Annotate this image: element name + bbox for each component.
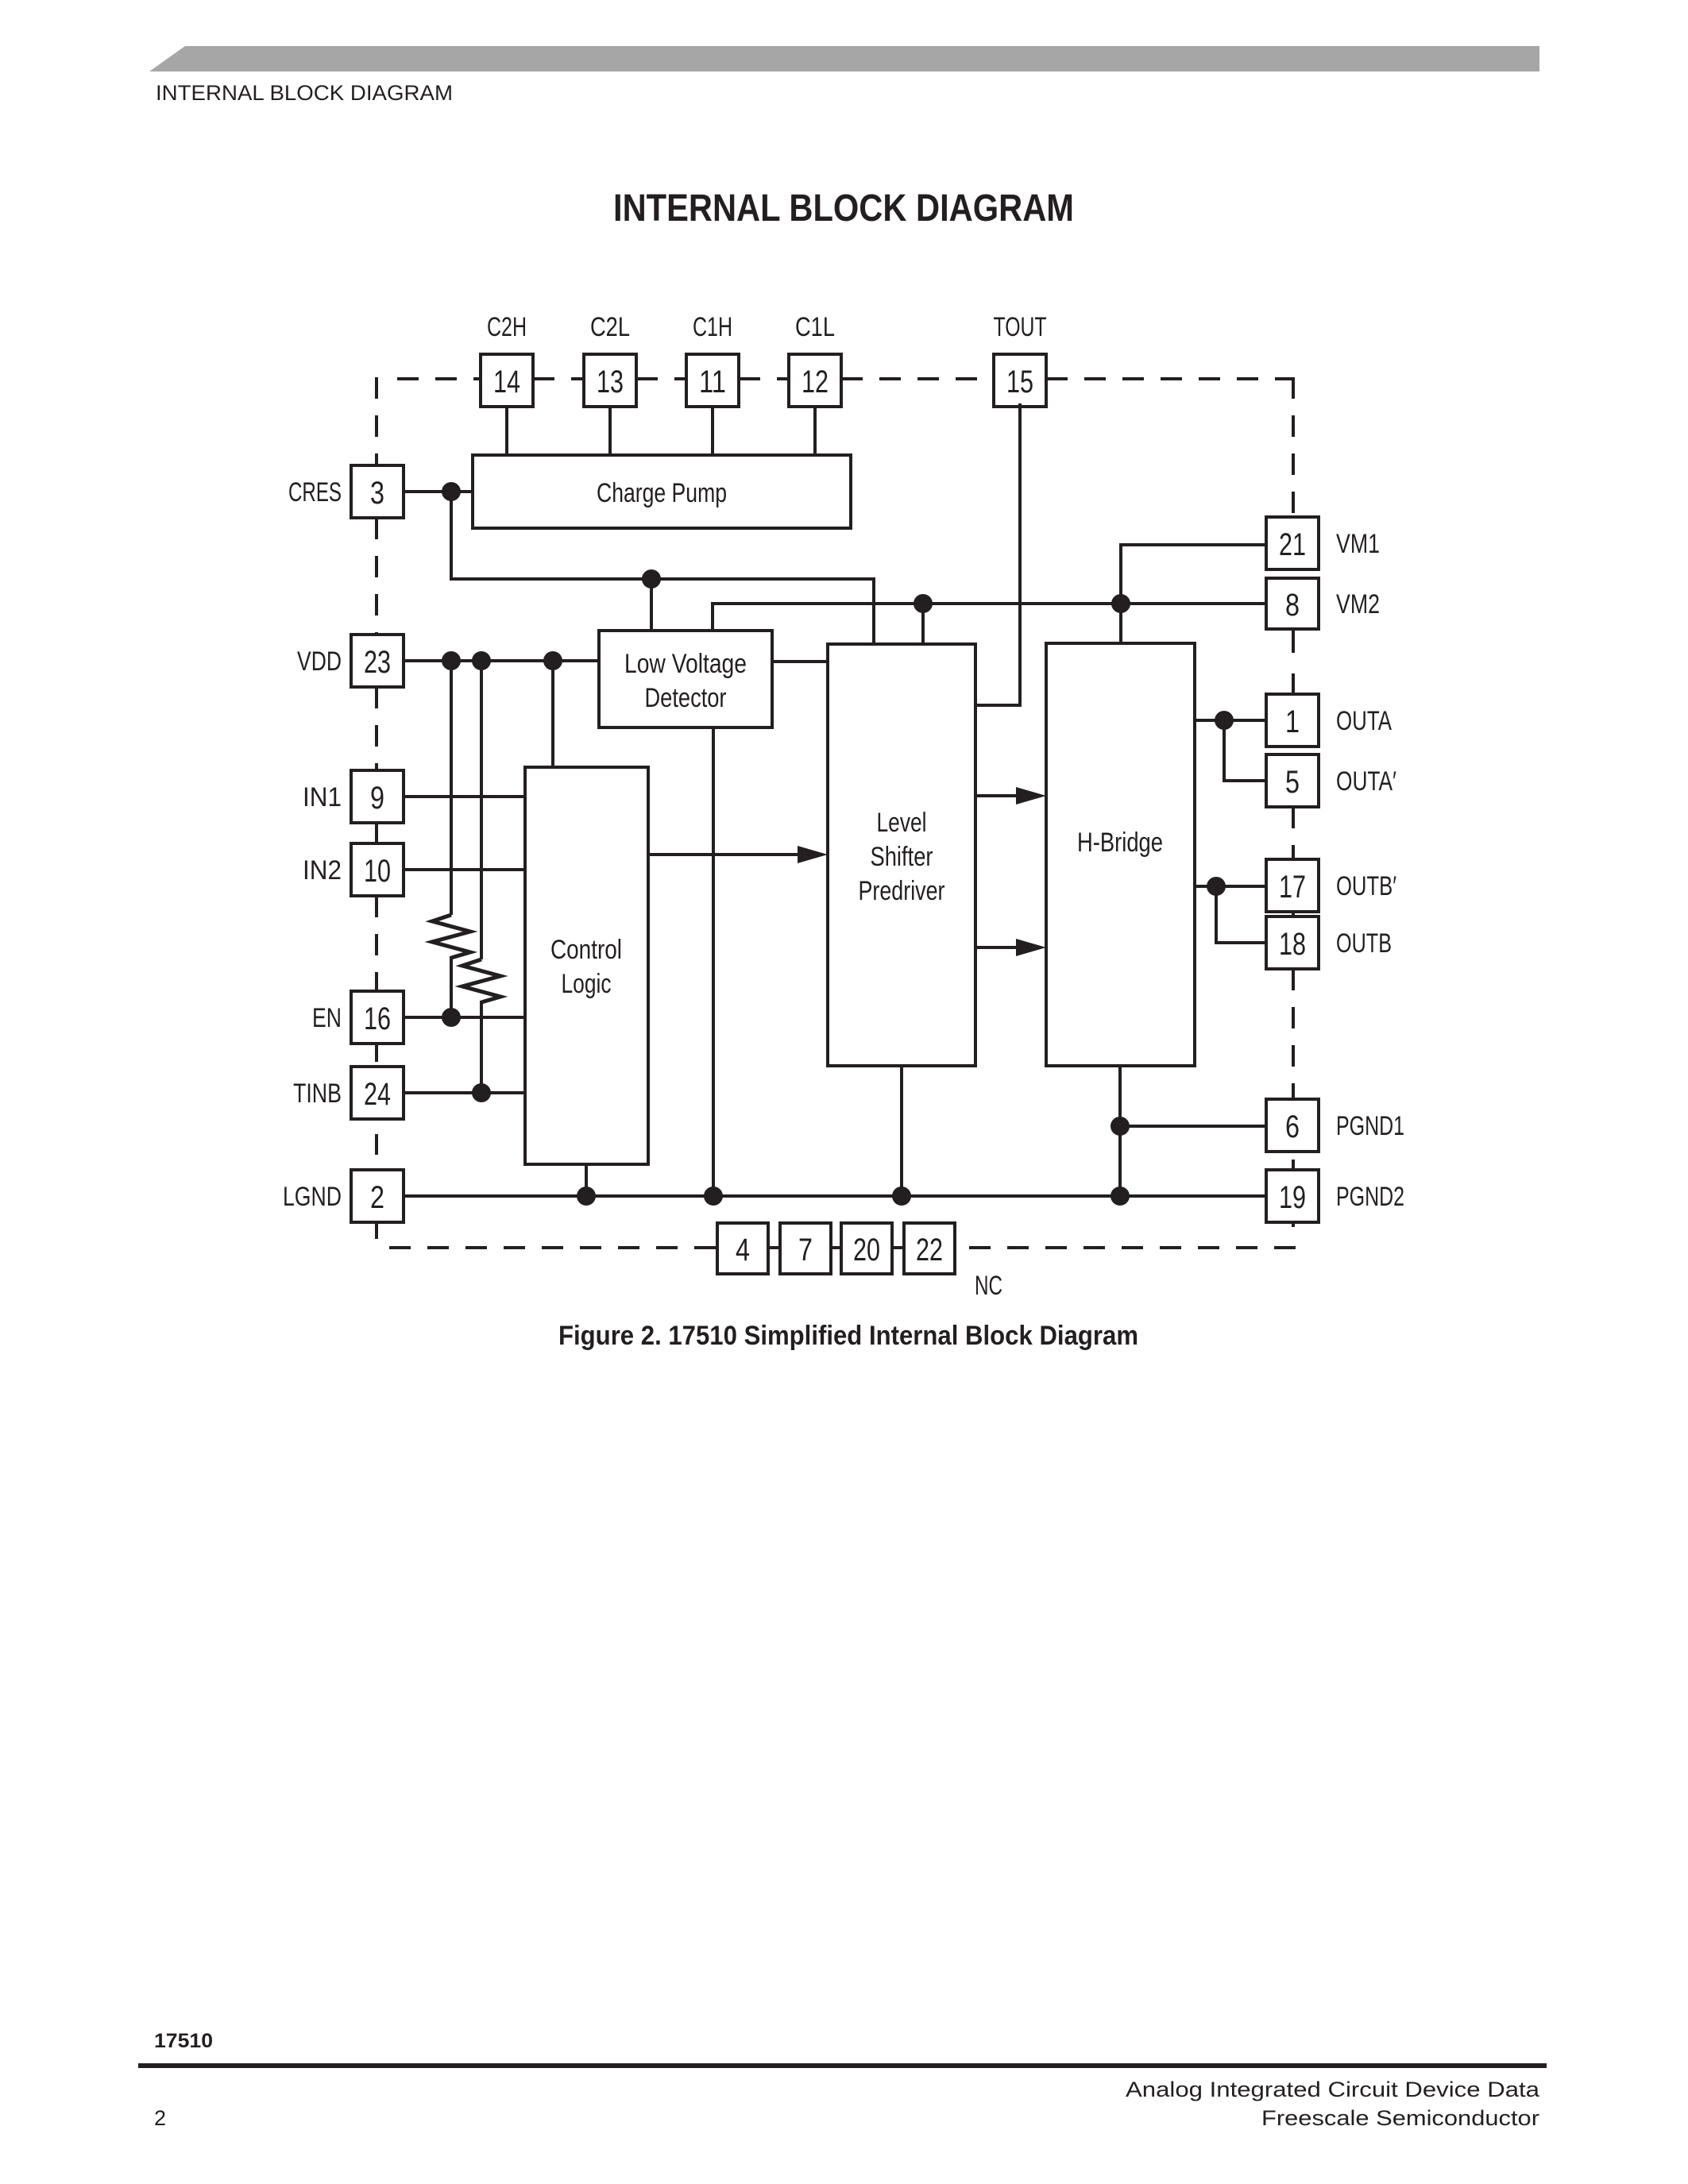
pin box 8 bbox=[1266, 578, 1319, 629]
resistor R1 bbox=[432, 915, 470, 958]
wire H-Bridge bottom down to LGND rail bbox=[1118, 1066, 1122, 1196]
pin box 6 bbox=[1266, 1099, 1319, 1152]
svg-text:11: 11 bbox=[699, 365, 726, 399]
svg-text:1: 1 bbox=[1285, 704, 1300, 739]
wire pin12 stub to Charge Pump bbox=[813, 407, 817, 455]
pin box 17 bbox=[1266, 859, 1319, 912]
svg-text:24: 24 bbox=[364, 1077, 391, 1112]
svg-text:16: 16 bbox=[364, 1001, 391, 1036]
wire VM1 pin21 branch bbox=[1121, 545, 1266, 604]
pin box 9 bbox=[351, 770, 404, 823]
pin box 20 bbox=[841, 1223, 892, 1274]
junction dot EN-R1 bbox=[442, 1008, 461, 1027]
wire VDD tap down into Control Logic top bbox=[551, 661, 554, 767]
wire Level Shifter bottom down to LGND rail bbox=[900, 1066, 903, 1196]
pin box 3 bbox=[351, 465, 404, 518]
svg-text:Shifter: Shifter bbox=[871, 842, 933, 872]
dashed IC boundary: right edge short ticks bbox=[1292, 910, 1295, 917]
dashed IC boundary: right edge stubs between VM2 and OUTA bbox=[1292, 629, 1295, 653]
junction dot VDD-Control Logic bbox=[543, 651, 562, 670]
svg-text:22: 22 bbox=[916, 1233, 943, 1268]
pin box 10 bbox=[351, 843, 404, 896]
svg-text:12: 12 bbox=[802, 365, 829, 399]
svg-text:OUTA′: OUTA′ bbox=[1336, 766, 1396, 797]
svg-text:OUTA: OUTA bbox=[1336, 706, 1392, 736]
svg-text:4: 4 bbox=[736, 1233, 750, 1268]
pin box 22 bbox=[904, 1223, 955, 1274]
svg-text:Figure 2. 17510 Simplified Int: Figure 2. 17510 Simplified Internal Bloc… bbox=[558, 1321, 1138, 1351]
junction dot VM rail at H-Bridge bbox=[1111, 594, 1130, 613]
svg-text:3: 3 bbox=[370, 476, 384, 511]
svg-text:18: 18 bbox=[1279, 927, 1306, 962]
svg-text:2: 2 bbox=[370, 1180, 384, 1215]
svg-text:8: 8 bbox=[1285, 588, 1300, 623]
dashed IC boundary: bottom edge segments bbox=[389, 1246, 1296, 1249]
junction dot OUTB branch bbox=[1207, 877, 1226, 896]
svg-text:LGND: LGND bbox=[283, 1182, 342, 1212]
svg-text:C1H: C1H bbox=[693, 312, 732, 342]
wire LGND rail pin2 to PGND2 pin19 bbox=[404, 1194, 1266, 1198]
junction dot TINB-R2 bbox=[472, 1083, 491, 1102]
wire node A down into Low Voltage Detector top bbox=[650, 579, 653, 631]
svg-text:14: 14 bbox=[493, 365, 520, 399]
junction dot PGND1 branch bbox=[1111, 1117, 1130, 1136]
svg-text:TOUT: TOUT bbox=[994, 312, 1047, 342]
pin box 16 bbox=[351, 991, 404, 1044]
svg-text:Level: Level bbox=[877, 808, 927, 838]
junction dot CRES node bbox=[442, 482, 461, 501]
svg-text:VM2: VM2 bbox=[1336, 589, 1380, 619]
svg-text:5: 5 bbox=[1285, 765, 1300, 800]
wire TOUT pin15 down to Level Shifter right edge bbox=[975, 403, 1020, 705]
wire PGND1 pin6 branch bbox=[1120, 1125, 1266, 1128]
svg-text:Logic: Logic bbox=[562, 969, 612, 999]
wire VM rail tap down into Level Shifter top bbox=[921, 604, 925, 644]
wire H-Bridge to OUTB' pin17 bbox=[1195, 885, 1266, 888]
svg-text:IN1: IN1 bbox=[303, 782, 342, 812]
svg-text:Analog Integrated Circuit Devi: Analog Integrated Circuit Device Data bbox=[1126, 2078, 1540, 2101]
pin box 18 bbox=[1266, 916, 1319, 969]
pin box 7 bbox=[780, 1223, 831, 1274]
footer rule bbox=[138, 2063, 1547, 2068]
svg-text:NC: NC bbox=[975, 1271, 1002, 1301]
svg-text:C2L: C2L bbox=[590, 312, 630, 342]
svg-text:Predriver: Predriver bbox=[859, 876, 945, 906]
block Control Logic bbox=[525, 767, 648, 1164]
pin box 4 bbox=[717, 1223, 768, 1274]
wire Level Shifter to H-Bridge arrow upper bbox=[975, 794, 1019, 797]
pin box 15 bbox=[994, 354, 1046, 407]
dashed IC boundary: left edge short ticks bbox=[375, 823, 378, 843]
svg-text:VDD: VDD bbox=[297, 646, 342, 677]
wire VM rail riser into Low Voltage Detector top bbox=[711, 602, 714, 631]
svg-text:Detector: Detector bbox=[645, 683, 727, 713]
wire EN pin16 to Control Logic bbox=[404, 1016, 525, 1019]
wire R2 bottom to TINB line bbox=[480, 1001, 483, 1093]
junction dot LGND-Control Logic bbox=[577, 1187, 596, 1206]
block Charge Pump bbox=[473, 455, 851, 528]
wire IN2 pin10 to Control Logic bbox=[404, 868, 525, 871]
pin box 21 bbox=[1266, 517, 1319, 569]
pin box 24 bbox=[351, 1067, 404, 1119]
pin box 12 bbox=[789, 354, 841, 407]
wire Low Voltage Detector bottom down to LGND rail bbox=[712, 727, 715, 1196]
svg-text:17: 17 bbox=[1279, 870, 1306, 905]
wire VDD tap down to resistor R2 bbox=[480, 661, 483, 959]
svg-text:EN: EN bbox=[312, 1003, 342, 1033]
svg-text:VM1: VM1 bbox=[1336, 529, 1380, 559]
wire Control Logic bottom down to LGND rail bbox=[585, 1164, 588, 1196]
svg-text:INTERNAL BLOCK DIAGRAM: INTERNAL BLOCK DIAGRAM bbox=[156, 81, 453, 105]
dashed IC boundary: right edge segments bbox=[1292, 377, 1295, 1099]
wire pin13 stub to Charge Pump bbox=[608, 407, 612, 455]
svg-text:C2H: C2H bbox=[487, 312, 527, 342]
top gray banner bbox=[149, 46, 1539, 71]
junction dot LGND-LVD bbox=[704, 1187, 723, 1206]
svg-text:15: 15 bbox=[1006, 365, 1033, 399]
wire VM rail to VM2 pin8 bbox=[713, 602, 1266, 605]
dashed IC boundary: bottom edge ticks between NC boxes bbox=[768, 1246, 780, 1249]
junction dot LGND-H-Bridge bbox=[1111, 1187, 1130, 1206]
wire H-Bridge to OUTA pin1 bbox=[1195, 719, 1266, 722]
wire Control Logic to Level Shifter arrow bbox=[648, 853, 801, 856]
pin box 23 bbox=[351, 635, 404, 687]
wire Level Shifter to H-Bridge arrow lower bbox=[975, 946, 1019, 949]
wire Low Voltage Detector to Level Shifter bbox=[772, 660, 828, 663]
pin box 1 bbox=[1266, 694, 1319, 747]
junction dot VDD-R1 bbox=[442, 651, 461, 670]
junction dot VM rail at Level Shifter bbox=[914, 594, 933, 613]
wire VM rail tap down into H-Bridge top bbox=[1119, 604, 1122, 643]
svg-text:PGND1: PGND1 bbox=[1336, 1111, 1404, 1141]
junction dot node A on CRES rail bbox=[642, 569, 661, 588]
svg-text:INTERNAL BLOCK DIAGRAM: INTERNAL BLOCK DIAGRAM bbox=[613, 187, 1074, 230]
svg-text:17510: 17510 bbox=[154, 2030, 213, 2052]
svg-text:9: 9 bbox=[370, 781, 384, 816]
svg-text:7: 7 bbox=[798, 1233, 813, 1268]
svg-text:CRES: CRES bbox=[288, 477, 342, 507]
wire OUTB' branch to OUTB pin18 bbox=[1216, 886, 1266, 943]
junction dot LGND-Level Shifter bbox=[892, 1187, 911, 1206]
pin box 14 bbox=[481, 354, 533, 407]
svg-text:6: 6 bbox=[1285, 1109, 1300, 1144]
pin box 2 bbox=[351, 1170, 404, 1222]
svg-text:Freescale Semiconductor: Freescale Semiconductor bbox=[1261, 2106, 1539, 2130]
svg-text:Charge Pump: Charge Pump bbox=[597, 478, 727, 508]
svg-text:IN2: IN2 bbox=[303, 855, 342, 886]
wire pin14 stub to Charge Pump bbox=[505, 407, 508, 455]
wire CRES node down and across to Level Shifter top bbox=[451, 492, 874, 644]
svg-text:13: 13 bbox=[597, 365, 624, 399]
wire pin11 stub to Charge Pump bbox=[711, 407, 714, 455]
svg-text:10: 10 bbox=[364, 854, 391, 889]
pin box 5 bbox=[1266, 754, 1319, 807]
wire VDD pin23 to Low Voltage Detector bbox=[404, 659, 599, 662]
svg-text:2: 2 bbox=[154, 2106, 166, 2130]
svg-text:OUTB′: OUTB′ bbox=[1336, 871, 1396, 901]
block Level Shifter Predriver bbox=[828, 644, 975, 1066]
wire OUTA branch to OUTA' pin5 bbox=[1224, 720, 1266, 781]
dashed IC boundary: left edge segments bbox=[375, 377, 378, 991]
resistor R2 bbox=[462, 959, 500, 1002]
svg-text:TINB: TINB bbox=[293, 1078, 342, 1109]
junction dot OUTA branch bbox=[1215, 711, 1234, 730]
svg-text:21: 21 bbox=[1279, 527, 1306, 562]
wire TINB pin24 to Control Logic bbox=[404, 1091, 525, 1094]
svg-text:OUTB: OUTB bbox=[1336, 928, 1392, 959]
block H-Bridge bbox=[1046, 643, 1195, 1066]
dashed IC boundary: top edge segments bbox=[397, 377, 1294, 380]
block Low Voltage Detector bbox=[599, 631, 772, 727]
svg-text:23: 23 bbox=[364, 645, 391, 680]
pin box 19 bbox=[1266, 1170, 1319, 1222]
wire CRES pin3 to Charge Pump bbox=[404, 490, 473, 493]
svg-text:Low Voltage: Low Voltage bbox=[624, 649, 747, 679]
wire IN1 pin9 to Control Logic bbox=[404, 795, 525, 798]
svg-text:19: 19 bbox=[1279, 1180, 1306, 1215]
svg-text:H-Bridge: H-Bridge bbox=[1077, 828, 1163, 858]
pin box 11 bbox=[686, 354, 739, 407]
svg-text:Control: Control bbox=[550, 935, 622, 965]
wire R1 bottom to EN line bbox=[450, 956, 453, 1017]
pin box 13 bbox=[584, 354, 636, 407]
svg-text:C1L: C1L bbox=[795, 312, 835, 342]
svg-text:PGND2: PGND2 bbox=[1336, 1182, 1404, 1212]
wire VDD tap down to resistor R1 bbox=[450, 661, 453, 915]
junction dot VDD-R2 bbox=[472, 651, 491, 670]
svg-text:20: 20 bbox=[853, 1233, 880, 1268]
